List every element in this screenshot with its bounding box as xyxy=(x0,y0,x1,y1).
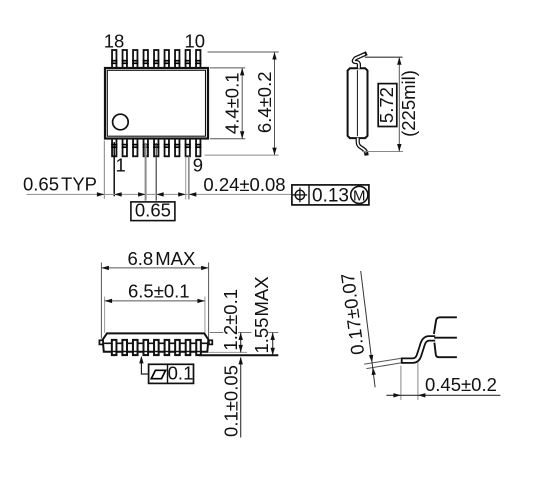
pin 3 (bottom row) xyxy=(132,138,138,156)
dimension 1.2±0.1 (body thickness) xyxy=(220,289,243,352)
svg-text:0.1±0.05: 0.1±0.05 xyxy=(220,365,241,437)
lead 1 (side view) xyxy=(111,340,118,355)
extension line pin 5 center xyxy=(155,143,157,201)
pin 15 (top row) xyxy=(143,50,149,69)
svg-text:0.45±0.2: 0.45±0.2 xyxy=(425,374,497,395)
lead 8 (side view) xyxy=(185,340,192,355)
pin number label 10 xyxy=(185,31,206,52)
dimension 4.4±0.1 (body width) xyxy=(210,68,245,139)
pin number label 18 xyxy=(104,31,125,52)
dimension 6.5±0.1 (body length) xyxy=(105,281,205,333)
svg-text:10: 10 xyxy=(185,31,206,52)
extension line pin 1 center xyxy=(113,142,115,196)
svg-text:4.4±0.1: 4.4±0.1 xyxy=(222,73,243,135)
body end tab left xyxy=(99,340,103,344)
lead (top, end view) xyxy=(354,53,367,68)
svg-text:0.65: 0.65 xyxy=(135,200,171,221)
package body (end view) xyxy=(348,68,368,138)
boxed basic dimension 0.65 xyxy=(131,200,175,221)
dimension 6.8 MAX (overall length) xyxy=(101,248,208,338)
lead (bottom, end view) xyxy=(358,138,367,156)
arrows pitch 0.65 xyxy=(138,192,164,196)
lead 2 (side view) xyxy=(121,340,128,355)
arrows pitch 0.65TYP xyxy=(97,192,122,196)
lead 9 (side view) xyxy=(195,340,202,355)
dimension 6.4±0.2 (lead tip to lead tip) xyxy=(205,52,279,155)
pin 5 (bottom row) xyxy=(153,138,159,156)
svg-text:0.1: 0.1 xyxy=(168,363,194,384)
lead gull-wing profile (detail) xyxy=(401,338,435,360)
seating plane line xyxy=(199,354,278,356)
pin 12 (top row) xyxy=(174,50,180,69)
extension line pin 4 center xyxy=(145,143,147,201)
lead 3 (side view) xyxy=(132,340,139,355)
pin 1 (bottom row) xyxy=(111,138,117,156)
svg-text:1.55MAX: 1.55MAX xyxy=(251,276,272,353)
svg-text:1: 1 xyxy=(115,155,125,176)
svg-text:M: M xyxy=(353,187,366,204)
extension line body bottom (right) xyxy=(208,351,247,353)
leader arrow to seating plane xyxy=(139,356,148,374)
boxed dimension 5.72 xyxy=(376,84,397,127)
pin 11 (top row) xyxy=(185,50,191,69)
extension lines lead width 0.24 xyxy=(186,157,189,200)
svg-text:(225mil): (225mil) xyxy=(398,70,419,137)
pin 9 (bottom row) xyxy=(195,138,201,156)
pin number label 9 xyxy=(193,155,203,176)
svg-text:6.8MAX: 6.8MAX xyxy=(128,248,196,269)
extension line body top (right) xyxy=(210,332,278,334)
svg-text:18: 18 xyxy=(104,31,125,52)
svg-text:9: 9 xyxy=(193,155,203,176)
feature control frame: position 0.13 M xyxy=(292,185,369,207)
pin 10 (top row) xyxy=(195,50,201,69)
svg-text:5.72: 5.72 xyxy=(376,87,397,123)
svg-text:1.2±0.1: 1.2±0.1 xyxy=(220,289,241,351)
pin 7 (bottom row) xyxy=(174,138,180,156)
pin number label 1 xyxy=(115,155,125,176)
svg-text:0.13: 0.13 xyxy=(312,186,349,207)
dimension 5.72 (225mil) lead span xyxy=(362,57,403,151)
pin 13 (top row) xyxy=(164,50,170,69)
extension line from body left edge xyxy=(103,141,105,199)
package body (side view) xyxy=(103,333,209,351)
dimension 0.45±0.2 (foot length) xyxy=(386,362,500,400)
lead 6 (side view) xyxy=(164,340,171,355)
dimension 0.1±0.05 (standoff) xyxy=(220,357,243,438)
lead 7 (side view) xyxy=(174,340,181,355)
svg-text:6.5±0.1: 6.5±0.1 xyxy=(128,281,190,302)
seating plane flatness frame 0.1 xyxy=(149,363,194,384)
svg-text:0.24±0.08: 0.24±0.08 xyxy=(203,174,285,195)
pin 18 (top row) xyxy=(111,50,117,69)
dimension 0.17±0.07 (lead thickness) xyxy=(337,271,401,387)
label 0.24±0.08 xyxy=(203,174,285,195)
pin 16 (top row) xyxy=(132,50,138,69)
dimension 1.55 MAX (overall height) xyxy=(251,276,275,355)
pin 4 (bottom row) xyxy=(143,138,149,156)
pin 14 (top row) xyxy=(153,50,159,69)
body end tab right xyxy=(209,340,212,344)
pin 17 (top row) xyxy=(122,50,128,69)
pin 6 (bottom row) xyxy=(164,138,170,156)
horizontal dimension line (pitch row) xyxy=(27,193,292,195)
package body edge (detail) xyxy=(434,317,457,357)
lead 5 (side view) xyxy=(153,340,160,355)
svg-text:6.4±0.2: 6.4±0.2 xyxy=(254,72,275,134)
pin 8 (bottom row) xyxy=(185,138,191,156)
package body outline (top view) xyxy=(105,68,208,139)
lead 4 (side view) xyxy=(143,340,150,355)
label (225mil) xyxy=(398,70,419,137)
arrows lead width 0.24 xyxy=(178,192,196,196)
pin 2 (bottom row) xyxy=(122,138,128,156)
pin 1 index mark xyxy=(113,114,129,130)
label 0.65 TYP xyxy=(23,174,97,195)
